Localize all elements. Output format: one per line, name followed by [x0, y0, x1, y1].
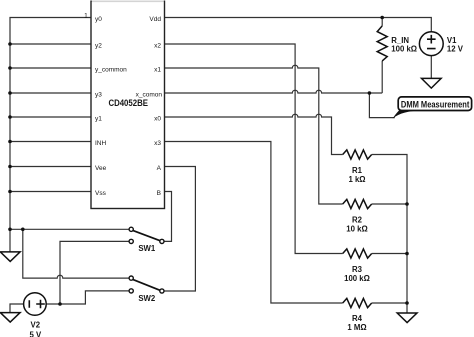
node x_comon / DMM junction: [368, 91, 372, 95]
svg-text:SW1: SW1: [138, 244, 156, 253]
svg-text:1: 1: [84, 13, 88, 20]
svg-text:Vee: Vee: [95, 165, 107, 172]
svg-text:INH: INH: [95, 140, 107, 147]
wire SW1 bottom throw to V2 plus vertical: [60, 241, 129, 304]
node bus to SW wire junction: [8, 228, 12, 232]
svg-text:100 kΩ: 100 kΩ: [344, 274, 370, 283]
svg-text:SW2: SW2: [138, 294, 156, 303]
resistor R_IN (vertical zigzag): [377, 26, 387, 61]
svg-text:5 V: 5 V: [29, 330, 42, 337]
wire net x_comon to R_IN bottom, hops over x2 and x1 verticals: [165, 90, 383, 93]
DMM Measurement callout box: [398, 97, 471, 111]
voltage source V1: [419, 32, 443, 56]
node y_common bus junction: [8, 66, 12, 70]
wire bus to SW1 top throw: [10, 228, 129, 230]
wire net x2 to R3: [165, 44, 343, 254]
svg-text:V2: V2: [31, 321, 41, 330]
svg-text:A: A: [157, 165, 162, 172]
svg-text:x2: x2: [154, 42, 161, 49]
node Vss bus junction: [8, 190, 12, 194]
wire net A: IC pin A down to SW2 common: [164, 167, 195, 292]
svg-text:100 kΩ: 100 kΩ: [391, 45, 417, 54]
ground (below V2 minus): [0, 313, 20, 323]
wire y_common row: [10, 67, 91, 69]
node Vdd / R_IN junction: [380, 16, 384, 20]
node y2 bus junction: [8, 42, 12, 46]
node R3 summing junction: [405, 252, 409, 256]
wire y3 row: [10, 92, 91, 94]
node V2 plus junction: [58, 302, 62, 306]
svg-text:y1: y1: [95, 115, 102, 122]
svg-text:DMM Measurement: DMM Measurement: [401, 100, 470, 110]
resistor R2: [343, 199, 372, 208]
wire branch down to SW2 top throw with hop over x=60: [23, 229, 129, 278]
wire V2 plus to SW2 bottom throw: [46, 291, 129, 304]
svg-text:R_IN: R_IN: [391, 36, 409, 45]
svg-text:12 V: 12 V: [447, 45, 464, 54]
node R2 summing junction: [405, 202, 409, 206]
svg-text:Vss: Vss: [95, 190, 107, 197]
resistor R1: [343, 150, 372, 159]
wire net B: IC pin B down to SW1 common: [164, 192, 172, 242]
wire net x1 to R2, hop over x2 vertical: [165, 65, 343, 204]
svg-text:CD4052BE: CD4052BE: [108, 98, 148, 108]
svg-text:Vdd: Vdd: [149, 16, 161, 23]
DMM Measurement callout tail: [393, 110, 422, 119]
wire Vee row: [10, 166, 91, 168]
IC U1 CD4052BE body: [91, 1, 165, 208]
wire INH row: [10, 141, 91, 143]
ground (resistor summing bus): [397, 313, 417, 323]
svg-text:10 kΩ: 10 kΩ: [346, 224, 367, 233]
wire R_IN top lead: [381, 18, 383, 26]
svg-text:y0: y0: [95, 16, 102, 23]
svg-text:x3: x3: [154, 140, 161, 147]
wire R_IN bottom lead: [381, 61, 383, 93]
voltage source V2: [24, 293, 47, 316]
svg-text:x1: x1: [154, 66, 161, 73]
switch SW2: [129, 276, 164, 293]
wire V2 minus to ground: [10, 304, 24, 313]
svg-text:1 MΩ: 1 MΩ: [347, 323, 366, 332]
wire left bus vertical with y0 row: [10, 18, 91, 252]
node R4 summing junction: [405, 301, 409, 305]
wire R1 right lead to summing bus: [372, 155, 407, 314]
node y3 bus junction: [8, 91, 12, 95]
wire R3 right lead: [372, 253, 407, 255]
resistor R3: [343, 249, 372, 258]
ground (left bus): [0, 252, 20, 262]
node SW1/SW2 ground branch junction: [21, 228, 25, 232]
node INH bus junction: [8, 140, 12, 144]
wire net x0 to R1, hops over x2 and x1 verticals: [165, 114, 343, 154]
svg-text:x0: x0: [154, 115, 161, 122]
wire V1 bottom to ground: [430, 56, 432, 78]
ground (below V1): [422, 78, 442, 88]
wire y1 row: [10, 116, 91, 118]
wire Vss row: [10, 191, 91, 193]
svg-text:B: B: [157, 190, 161, 197]
wire net x3 to R4: [165, 142, 343, 304]
wire R2 right lead: [372, 203, 407, 205]
svg-text:y2: y2: [95, 42, 102, 49]
wire R4 right lead: [372, 302, 407, 304]
wire DMM measurement tap: [369, 93, 394, 118]
wire net Vdd: IC to V1 top with junction to R_IN: [165, 18, 432, 32]
svg-text:y_common: y_common: [95, 66, 127, 73]
node Vee bus junction: [8, 165, 12, 169]
wire y2 row: [10, 43, 91, 45]
resistor R4: [343, 298, 372, 307]
svg-text:1 kΩ: 1 kΩ: [348, 175, 365, 184]
svg-text:y3: y3: [95, 91, 102, 98]
svg-text:x_comon: x_comon: [136, 91, 163, 98]
switch SW1: [129, 227, 164, 243]
node y1 bus junction: [8, 115, 12, 119]
